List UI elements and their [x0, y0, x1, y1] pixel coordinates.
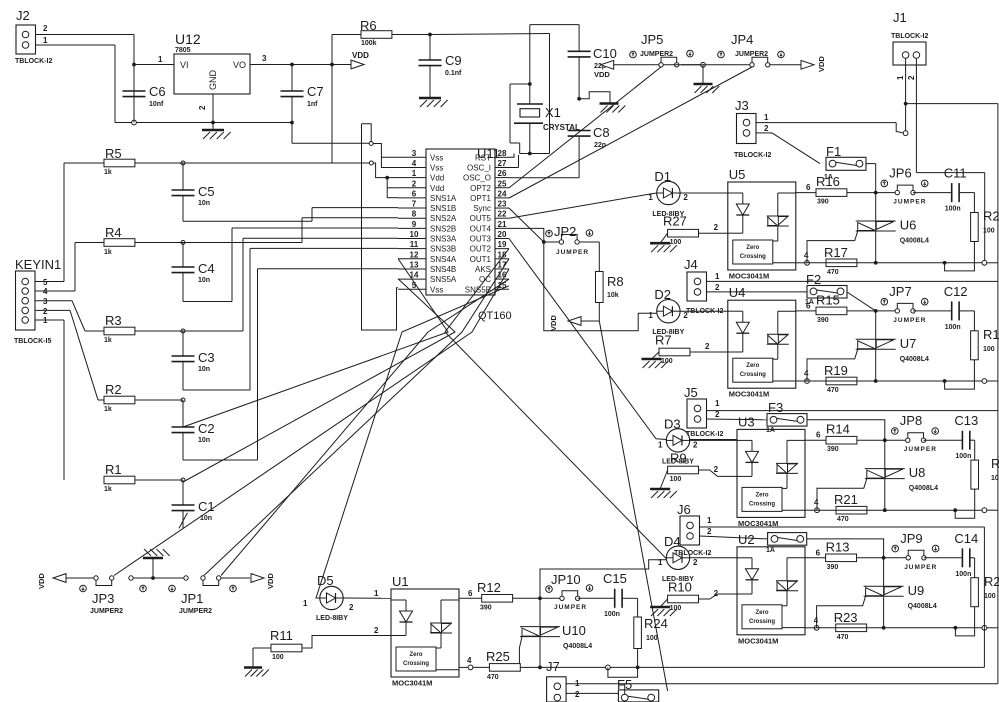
svg-text:1: 1	[412, 169, 417, 178]
svg-text:OSC_O: OSC_O	[463, 174, 491, 183]
svg-text:R9: R9	[670, 451, 687, 466]
svg-text:OUT2: OUT2	[470, 245, 492, 254]
svg-text:U12: U12	[175, 31, 201, 47]
svg-text:1: 1	[707, 516, 712, 525]
svg-text:SNS4A: SNS4A	[430, 255, 457, 264]
svg-text:JP8: JP8	[900, 413, 922, 428]
svg-text:Crossing: Crossing	[749, 501, 775, 507]
svg-text:OSC_I: OSC_I	[467, 163, 491, 172]
svg-text:Zero: Zero	[409, 652, 422, 658]
svg-text:C5: C5	[198, 184, 215, 199]
svg-text:R4: R4	[105, 225, 122, 240]
svg-text:R12: R12	[477, 580, 501, 595]
svg-text:JUMPER: JUMPER	[893, 317, 926, 324]
svg-text:R13: R13	[826, 539, 850, 554]
svg-text:R8: R8	[607, 274, 624, 289]
svg-text:1k: 1k	[104, 486, 112, 493]
svg-text:JP3: JP3	[92, 591, 114, 606]
svg-text:SNS4B: SNS4B	[430, 265, 456, 274]
svg-text:100n: 100n	[955, 453, 971, 460]
svg-text:100: 100	[272, 654, 284, 661]
svg-text:OUT1: OUT1	[470, 255, 492, 264]
svg-text:VDD: VDD	[594, 70, 610, 79]
svg-text:2: 2	[43, 307, 48, 316]
svg-text:10k: 10k	[607, 292, 619, 299]
svg-text:D5: D5	[317, 573, 334, 588]
svg-text:1A: 1A	[766, 547, 775, 554]
svg-text:470: 470	[827, 387, 839, 394]
svg-text:390: 390	[480, 605, 492, 612]
svg-text:U5: U5	[729, 167, 746, 182]
svg-text:1: 1	[715, 399, 720, 408]
svg-text:R3: R3	[105, 313, 122, 328]
svg-text:Vss: Vss	[430, 285, 443, 294]
svg-text:VDD: VDD	[549, 315, 558, 331]
svg-text:1: 1	[658, 440, 663, 449]
svg-text:2: 2	[693, 440, 698, 449]
svg-text:R2: R2	[991, 456, 999, 471]
svg-text:100n: 100n	[945, 324, 961, 331]
svg-text:6: 6	[806, 183, 811, 192]
svg-text:100n: 100n	[604, 611, 620, 618]
svg-text:1: 1	[715, 272, 720, 281]
svg-text:21: 21	[498, 220, 507, 229]
svg-text:100: 100	[991, 475, 999, 482]
svg-text:R25: R25	[486, 649, 510, 664]
svg-text:R2: R2	[105, 382, 122, 397]
svg-text:10: 10	[410, 230, 419, 239]
svg-text:11: 11	[410, 240, 419, 249]
svg-text:100: 100	[670, 476, 682, 483]
svg-text:3: 3	[412, 149, 417, 158]
svg-text:100n: 100n	[955, 571, 971, 578]
svg-text:R11: R11	[270, 628, 293, 643]
svg-text:JP7: JP7	[889, 284, 911, 299]
svg-text:R27: R27	[663, 214, 687, 229]
svg-text:1k: 1k	[104, 249, 112, 256]
svg-text:R2: R2	[984, 574, 999, 589]
svg-text:VDD: VDD	[37, 573, 46, 589]
svg-text:D4: D4	[664, 534, 681, 549]
svg-text:R5: R5	[105, 146, 122, 161]
svg-text:100: 100	[646, 635, 658, 642]
svg-text:13: 13	[410, 260, 419, 269]
svg-text:AKS: AKS	[475, 265, 491, 274]
svg-text:2: 2	[714, 589, 719, 598]
svg-text:U7: U7	[900, 336, 917, 351]
svg-text:1k: 1k	[104, 406, 112, 413]
svg-text:Zero: Zero	[746, 245, 759, 251]
svg-text:RST: RST	[475, 153, 491, 162]
svg-text:TBLOCK-I2: TBLOCK-I2	[734, 152, 771, 159]
svg-text:22: 22	[498, 210, 507, 219]
svg-text:Q4008L4: Q4008L4	[909, 485, 938, 492]
svg-text:1A: 1A	[766, 427, 775, 434]
svg-text:D3: D3	[664, 416, 681, 431]
svg-text:100k: 100k	[361, 40, 377, 47]
svg-text:TBLOCK-I2: TBLOCK-I2	[674, 550, 711, 557]
svg-text:OPT2: OPT2	[470, 184, 491, 193]
svg-text:MOC3041M: MOC3041M	[392, 679, 432, 688]
svg-text:C12: C12	[944, 284, 968, 299]
svg-text:JUMPER: JUMPER	[554, 604, 587, 611]
svg-text:26: 26	[498, 169, 507, 178]
svg-text:F1: F1	[826, 144, 841, 159]
svg-text:470: 470	[827, 269, 839, 276]
svg-text:R6: R6	[360, 18, 377, 33]
svg-text:1k: 1k	[104, 337, 112, 344]
svg-text:3: 3	[262, 54, 267, 63]
svg-text:R21: R21	[834, 492, 858, 507]
svg-text:U6: U6	[900, 218, 917, 233]
svg-text:2: 2	[714, 465, 719, 474]
svg-text:JP10: JP10	[551, 572, 581, 587]
svg-text:2: 2	[907, 75, 916, 80]
svg-text:Sync: Sync	[473, 204, 491, 213]
svg-text:VDD: VDD	[817, 56, 826, 72]
svg-text:SNS3B: SNS3B	[430, 245, 456, 254]
svg-text:R23: R23	[834, 610, 858, 625]
svg-text:SNS1A: SNS1A	[430, 194, 457, 203]
svg-text:VDD: VDD	[352, 51, 369, 60]
svg-text:1A: 1A	[805, 299, 814, 306]
svg-text:TBLOCK-I2: TBLOCK-I2	[686, 431, 723, 438]
svg-text:R14: R14	[826, 422, 850, 437]
svg-text:TBLOCK-I2: TBLOCK-I2	[891, 33, 928, 40]
svg-text:Zero: Zero	[746, 363, 759, 369]
svg-text:TBLOCK-I5: TBLOCK-I5	[14, 338, 51, 345]
svg-text:U10: U10	[562, 623, 586, 638]
svg-text:C14: C14	[954, 531, 978, 546]
svg-text:24: 24	[498, 189, 507, 198]
svg-text:Crossing: Crossing	[749, 619, 775, 625]
svg-text:U4: U4	[729, 285, 746, 300]
svg-text:2: 2	[764, 124, 769, 133]
svg-text:1: 1	[374, 589, 379, 598]
svg-text:Crossing: Crossing	[740, 254, 766, 260]
svg-text:1: 1	[43, 36, 48, 45]
svg-text:7: 7	[412, 200, 417, 209]
svg-text:X1: X1	[545, 105, 561, 120]
svg-text:2: 2	[412, 179, 417, 188]
svg-text:390: 390	[817, 317, 829, 324]
svg-text:R19: R19	[824, 363, 848, 378]
svg-text:Q4008L4: Q4008L4	[908, 603, 937, 610]
svg-text:J7: J7	[546, 659, 560, 674]
svg-text:1: 1	[303, 599, 308, 608]
svg-text:7805: 7805	[175, 47, 191, 54]
svg-text:C3: C3	[198, 350, 215, 365]
svg-text:U8: U8	[909, 465, 926, 480]
svg-text:JUMPER2: JUMPER2	[90, 608, 123, 615]
svg-text:C9: C9	[445, 53, 462, 68]
svg-text:C11: C11	[944, 166, 967, 181]
svg-text:390: 390	[817, 199, 829, 206]
svg-text:8: 8	[412, 210, 417, 219]
svg-text:12: 12	[410, 250, 419, 259]
svg-text:OUT4: OUT4	[470, 224, 492, 233]
svg-text:100: 100	[983, 228, 995, 235]
svg-text:2: 2	[198, 105, 207, 110]
svg-text:C15: C15	[603, 571, 627, 586]
svg-text:2: 2	[683, 193, 688, 202]
svg-text:U2: U2	[738, 532, 755, 547]
svg-text:TBLOCK-I2: TBLOCK-I2	[15, 58, 52, 65]
svg-text:VDD: VDD	[266, 573, 275, 589]
svg-text:F2: F2	[806, 272, 821, 287]
svg-text:28: 28	[498, 149, 507, 158]
svg-text:D2: D2	[654, 287, 671, 302]
svg-text:R2: R2	[983, 209, 999, 224]
svg-text:SNS5A: SNS5A	[430, 275, 457, 284]
svg-text:22p: 22p	[594, 142, 606, 149]
svg-text:Crossing: Crossing	[403, 661, 429, 667]
svg-text:QT160: QT160	[478, 310, 512, 322]
svg-text:OUT3: OUT3	[470, 235, 492, 244]
svg-text:C8: C8	[593, 125, 610, 140]
svg-text:5: 5	[412, 281, 417, 290]
svg-text:390: 390	[827, 564, 839, 571]
svg-text:20: 20	[498, 230, 507, 239]
svg-text:JP2: JP2	[554, 224, 576, 239]
svg-text:2: 2	[715, 410, 720, 419]
svg-text:C2: C2	[198, 421, 215, 436]
svg-text:R24: R24	[644, 616, 668, 631]
svg-text:2: 2	[575, 690, 580, 699]
svg-text:2: 2	[693, 558, 698, 567]
svg-text:2: 2	[715, 283, 720, 292]
svg-text:23: 23	[498, 200, 507, 209]
svg-text:14: 14	[410, 271, 419, 280]
svg-text:2: 2	[374, 626, 379, 635]
svg-text:C6: C6	[149, 84, 166, 99]
svg-text:JUMPER: JUMPER	[904, 446, 937, 453]
svg-text:1: 1	[658, 558, 663, 567]
svg-text:1k: 1k	[104, 169, 112, 176]
svg-text:TBLOCK-I2: TBLOCK-I2	[686, 308, 723, 315]
svg-text:100: 100	[661, 358, 673, 365]
svg-text:J2: J2	[16, 8, 30, 23]
svg-text:D1: D1	[654, 169, 671, 184]
svg-text:6: 6	[468, 589, 473, 598]
svg-text:SNS1B: SNS1B	[430, 204, 456, 213]
svg-text:R7: R7	[655, 333, 672, 348]
svg-text:Crossing: Crossing	[740, 372, 766, 378]
svg-text:100: 100	[983, 346, 995, 353]
svg-text:C13: C13	[954, 413, 978, 428]
svg-text:Zero: Zero	[755, 492, 768, 498]
svg-text:Vss: Vss	[430, 163, 443, 172]
svg-text:Vdd: Vdd	[430, 174, 444, 183]
svg-text:4: 4	[467, 656, 472, 665]
svg-text:JP6: JP6	[889, 166, 911, 181]
svg-text:R10: R10	[668, 580, 692, 595]
svg-text:6: 6	[816, 548, 821, 557]
svg-text:0.1nf: 0.1nf	[445, 70, 462, 77]
svg-text:JUMPER2: JUMPER2	[179, 608, 212, 615]
svg-text:OPT1: OPT1	[470, 194, 491, 203]
svg-text:390: 390	[827, 446, 839, 453]
svg-text:3: 3	[43, 297, 48, 306]
svg-text:OUT5: OUT5	[470, 214, 492, 223]
svg-text:R1: R1	[983, 327, 999, 342]
svg-text:10n: 10n	[198, 437, 210, 444]
svg-text:MOC3041M: MOC3041M	[738, 636, 778, 645]
svg-text:Zero: Zero	[755, 610, 768, 616]
svg-text:100: 100	[984, 593, 996, 600]
svg-text:100n: 100n	[945, 206, 961, 213]
svg-text:MOC3041M: MOC3041M	[729, 390, 769, 399]
svg-text:JP4: JP4	[731, 32, 753, 47]
svg-text:R1: R1	[105, 462, 122, 477]
svg-text:10n: 10n	[198, 277, 210, 284]
svg-text:MOC3041M: MOC3041M	[729, 272, 769, 281]
svg-text:1: 1	[158, 55, 163, 64]
svg-text:VO: VO	[233, 60, 246, 70]
svg-text:470: 470	[837, 634, 849, 641]
svg-text:Vss: Vss	[430, 153, 443, 162]
svg-text:470: 470	[837, 516, 849, 523]
svg-text:F3: F3	[768, 400, 783, 415]
svg-text:R15: R15	[816, 292, 840, 307]
svg-text:U9: U9	[908, 583, 925, 598]
svg-text:JP9: JP9	[900, 531, 922, 546]
svg-text:LED-8IBY: LED-8IBY	[316, 615, 348, 622]
svg-text:JUMPER: JUMPER	[556, 249, 589, 256]
svg-text:U3: U3	[738, 414, 755, 429]
svg-text:VI: VI	[180, 60, 189, 70]
svg-text:J4: J4	[684, 257, 698, 272]
svg-text:SNS2A: SNS2A	[430, 214, 457, 223]
svg-text:JP5: JP5	[641, 32, 663, 47]
svg-text:J1: J1	[893, 10, 907, 25]
svg-text:SNS2B: SNS2B	[430, 224, 456, 233]
svg-text:U1: U1	[392, 574, 409, 589]
svg-text:2: 2	[43, 24, 48, 33]
svg-text:J3: J3	[735, 98, 749, 113]
svg-text:27: 27	[498, 159, 507, 168]
svg-text:19: 19	[498, 240, 507, 249]
svg-text:R17: R17	[824, 245, 848, 260]
svg-text:J5: J5	[684, 385, 698, 400]
svg-text:2: 2	[705, 342, 710, 351]
svg-text:C7: C7	[307, 84, 324, 99]
svg-text:1: 1	[648, 311, 653, 320]
svg-text:6: 6	[816, 431, 821, 440]
svg-text:1: 1	[648, 193, 653, 202]
svg-text:J6: J6	[677, 502, 691, 517]
svg-text:5: 5	[43, 278, 48, 287]
svg-text:1: 1	[764, 113, 769, 122]
svg-text:1: 1	[896, 75, 905, 80]
svg-text:C4: C4	[198, 261, 215, 276]
svg-text:JUMPER: JUMPER	[904, 564, 937, 571]
svg-text:10n: 10n	[198, 200, 210, 207]
svg-text:470: 470	[487, 674, 499, 681]
svg-text:C1: C1	[198, 499, 215, 514]
svg-text:Q4008L4: Q4008L4	[900, 238, 929, 245]
svg-text:10n: 10n	[198, 366, 210, 373]
svg-text:R16: R16	[816, 174, 840, 189]
svg-text:JUMPER: JUMPER	[893, 199, 926, 206]
svg-text:Q4008L4: Q4008L4	[563, 643, 592, 650]
svg-text:KEYIN1: KEYIN1	[15, 257, 61, 272]
svg-text:GND: GND	[208, 70, 218, 91]
svg-text:C10: C10	[593, 46, 617, 61]
svg-text:9: 9	[412, 220, 417, 229]
svg-text:4: 4	[412, 159, 417, 168]
svg-text:6: 6	[412, 189, 417, 198]
svg-text:2: 2	[707, 527, 712, 536]
svg-text:10nf: 10nf	[149, 101, 164, 108]
svg-text:SNS3A: SNS3A	[430, 235, 457, 244]
svg-text:JP1: JP1	[181, 591, 203, 606]
svg-text:1nf: 1nf	[307, 101, 318, 108]
svg-text:Vdd: Vdd	[430, 184, 444, 193]
svg-text:100: 100	[670, 239, 682, 246]
svg-text:25: 25	[498, 179, 507, 188]
svg-text:Q4008L4: Q4008L4	[900, 356, 929, 363]
svg-text:2: 2	[714, 223, 719, 232]
svg-text:2: 2	[349, 603, 354, 612]
